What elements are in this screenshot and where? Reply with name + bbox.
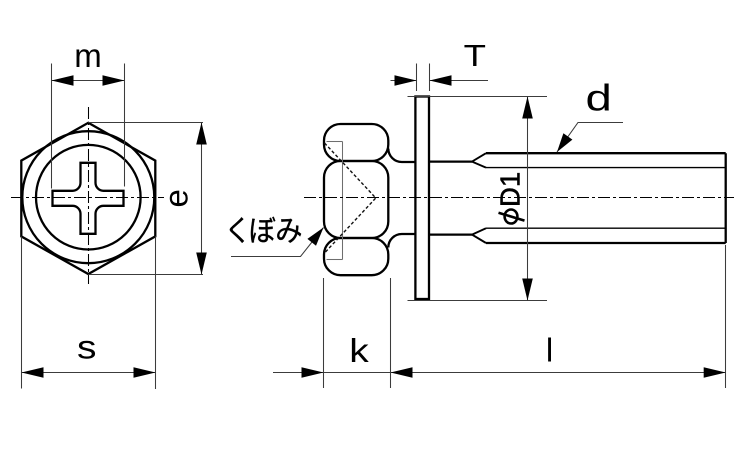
head chamfer circle (outer): [22, 131, 154, 263]
washer: [415, 97, 429, 300]
svg-text:k: k: [349, 332, 369, 369]
svg-text:s: s: [77, 329, 96, 366]
front view vertical centerline: [88, 107, 90, 284]
shank lines: [429, 160, 472, 162]
svg-text:T: T: [464, 39, 486, 74]
svg-text:m: m: [74, 37, 102, 74]
dimension s: dimension line and arrows: [22, 372, 156, 374]
dimension phiD1: extension lines: [408, 96, 548, 98]
dimension e: dimension line and arrows: [201, 123, 203, 275]
svg-text:l: l: [546, 332, 553, 369]
svg-text:d: d: [586, 78, 612, 119]
label phiD1: phi symbol circle: [505, 210, 518, 224]
phillips cross recess: [53, 163, 124, 234]
thread run-out chevrons: [472, 153, 486, 167]
leader d: arrow and line: [557, 123, 623, 153]
label kubomi (drawn kana): [230, 217, 244, 243]
dimension T: extension lines: [416, 64, 418, 92]
dimension phiD1: dimension line and arrows: [527, 97, 529, 301]
dimension T: lines and outside arrows: [391, 80, 417, 82]
dimension m: extension lines: [51, 64, 53, 189]
front view horizontal centerline: [11, 197, 164, 199]
shaft end line: [725, 153, 727, 243]
dimension e: extension lines from hexagon vertices: [88, 122, 203, 124]
hex head front view: hexagon outline: [21, 123, 155, 274]
label phiD1: phi slash: [499, 213, 525, 221]
dimension m: dimension line and arrows: [52, 80, 125, 82]
side view centerline: [304, 197, 734, 199]
svg-text:D1: D1: [495, 172, 526, 207]
thread root lines: [486, 167, 726, 169]
bolt head side view: top facet: [324, 124, 388, 161]
svg-text:e: e: [158, 189, 195, 207]
dimensions k and l: dimension line: [273, 372, 726, 374]
bolt head side view: middle facet: [324, 161, 388, 238]
kubomi leader line and arrow: [231, 228, 324, 257]
hidden cone of dimple (dashed V): [325, 143, 376, 253]
dimensions k and l: extension lines: [323, 278, 325, 388]
head top face circle (inner): [36, 145, 141, 250]
neck between head and washer: [388, 149, 415, 163]
dimension s: extension lines: [21, 237, 23, 389]
thread major diameter lines: [486, 152, 726, 154]
bolt head side view: bottom facet: [324, 238, 388, 275]
dimple bore thin lines: [342, 142, 344, 260]
